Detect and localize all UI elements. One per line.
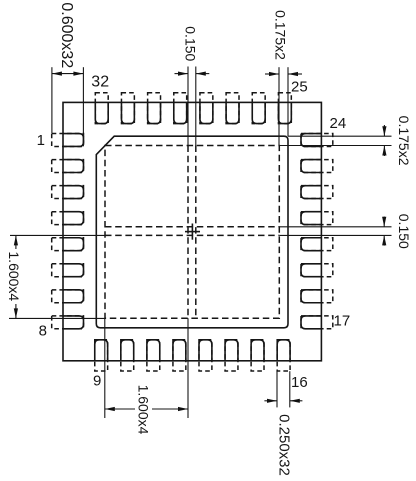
svg-text:0.175x2: 0.175x2 xyxy=(273,10,289,60)
svg-text:0.600x32: 0.600x32 xyxy=(58,2,75,68)
svg-text:0.250x32: 0.250x32 xyxy=(276,414,293,476)
svg-text:24: 24 xyxy=(330,115,347,132)
svg-text:9: 9 xyxy=(93,373,101,390)
svg-text:0.150: 0.150 xyxy=(183,26,199,61)
svg-text:1.600x4: 1.600x4 xyxy=(135,385,151,435)
svg-text:16: 16 xyxy=(291,374,308,391)
svg-text:25: 25 xyxy=(291,78,308,95)
svg-text:32: 32 xyxy=(91,73,109,90)
svg-text:8: 8 xyxy=(39,323,47,340)
svg-text:1.600x4: 1.600x4 xyxy=(6,251,22,301)
svg-text:0.175x2: 0.175x2 xyxy=(396,116,412,166)
svg-text:0.150: 0.150 xyxy=(396,214,412,249)
svg-text:17: 17 xyxy=(334,313,351,330)
svg-text:1: 1 xyxy=(37,132,45,149)
